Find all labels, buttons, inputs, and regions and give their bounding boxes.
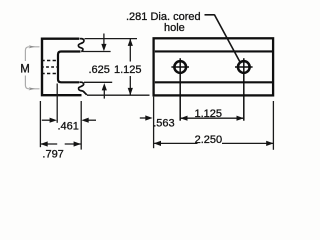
dim 2.250 line xyxy=(154,142,198,144)
svg-text:.563: .563 xyxy=(153,117,174,129)
svg-text:1.125: 1.125 xyxy=(195,108,223,120)
dim .797 line xyxy=(40,143,57,145)
hole centerline (dashed) xyxy=(41,66,58,68)
hidden hole edge upper (dashed) xyxy=(41,60,58,62)
dim 1.125 (hole spacing) line xyxy=(180,117,244,119)
notch top extension xyxy=(83,51,111,53)
svg-text:.625: .625 xyxy=(89,64,110,76)
dim .461 left outside arrow xyxy=(42,119,51,121)
right view: bar outline xyxy=(154,38,274,95)
hidden hole edge lower (dashed) xyxy=(41,73,58,75)
leader tick xyxy=(205,14,215,16)
svg-text:M: M xyxy=(20,63,30,75)
svg-text:hole: hole xyxy=(164,22,185,34)
left hole center mark horizontal xyxy=(171,66,189,68)
right view inner line lower xyxy=(155,81,272,83)
dim 1.125 vertical line (left view) xyxy=(129,39,131,62)
M bracket bottom arm (gray) xyxy=(25,76,39,89)
dim .461 right outside arrow xyxy=(88,119,96,121)
bottom break squiggle xyxy=(79,82,87,95)
paper background xyxy=(0,0,300,171)
leader diagonal to right hole xyxy=(214,15,240,63)
svg-text:.797: .797 xyxy=(42,149,63,161)
right hole center mark horizontal xyxy=(235,66,253,68)
notch bottom extension xyxy=(84,81,112,83)
right hole center mark vertical + extension below xyxy=(243,58,245,120)
extension line below rect left edge xyxy=(153,97,155,149)
dim .625 lower arrow xyxy=(103,89,105,98)
dim .625 upper arrow xyxy=(103,34,105,46)
top edge extension xyxy=(85,38,138,40)
svg-text:.461: .461 xyxy=(58,120,79,132)
flange tip extension below xyxy=(80,101,82,150)
bottom edge extension xyxy=(87,94,150,96)
extension line below rect right edge xyxy=(272,101,274,150)
web face extension below xyxy=(56,84,58,123)
left view: channel cross-section outer outline xyxy=(42,39,82,95)
left edge extension below xyxy=(39,101,41,147)
M bracket top arm (gray) xyxy=(25,47,39,61)
right hole circle xyxy=(238,61,250,73)
top break squiggle xyxy=(78,39,84,52)
left view: notch (web and flange inner faces) xyxy=(58,52,81,83)
dim .563 left outside arrow xyxy=(140,117,147,119)
right view inner line upper xyxy=(155,50,272,52)
svg-text:1.125: 1.125 xyxy=(114,64,142,76)
svg-text:2.250: 2.250 xyxy=(195,134,223,146)
left hole center mark vertical + extension below xyxy=(179,58,181,120)
left hole circle xyxy=(174,61,186,73)
extension lines of left view xyxy=(40,39,149,150)
